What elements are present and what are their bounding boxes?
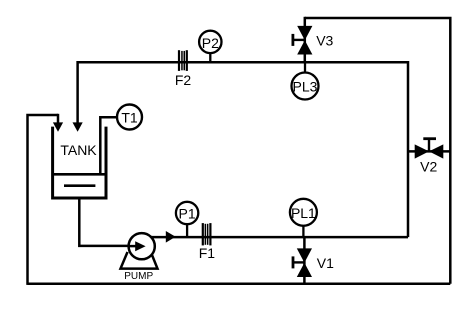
wire: top pipe with right-side vertical pipe	[305, 18, 451, 284]
wire: PL1 stem	[302, 212, 304, 237]
svg-text:P1: P1	[179, 206, 196, 222]
wire: V3 vertical pipe	[304, 17, 307, 62]
svg-text:TANK: TANK	[60, 142, 97, 158]
pump	[124, 233, 155, 282]
wire: upper middle pipe (F2 / P2 / PL3 / V3 junction line)	[78, 62, 408, 237]
svg-text:F1: F1	[199, 245, 216, 261]
arrow into tank from upper pipe	[73, 122, 83, 131]
wire: V2 horizontal pipe	[408, 150, 450, 153]
wire: lower discharge pipe (P1 / F1 / PL1 line)	[150, 236, 408, 239]
svg-text:PUMP: PUMP	[124, 271, 153, 282]
wire: P2 stem	[209, 42, 211, 62]
valve V2	[415, 139, 444, 175]
flow element F2	[175, 50, 192, 88]
tank	[52, 127, 107, 198]
arrow into tank from left loop	[53, 122, 63, 131]
svg-text:PL3: PL3	[293, 79, 318, 95]
wire: tank bottom outlet pipe to pump inlet	[79, 198, 136, 246]
wire: vertical pipe from upper pipe down into tank	[76, 61, 79, 124]
gauge PL1	[290, 199, 317, 226]
valve V1	[293, 248, 334, 277]
svg-text:PL1: PL1	[291, 205, 316, 221]
wire: left vertical pipe with corner toward tank	[28, 115, 59, 285]
sensor T1	[117, 105, 142, 130]
svg-text:T1: T1	[121, 110, 138, 126]
wire: T1 connector	[100, 117, 129, 175]
svg-text:F2: F2	[175, 72, 192, 88]
gauge P1	[176, 202, 198, 224]
wire: bottom return pipe	[28, 282, 451, 285]
valve V3	[293, 26, 334, 55]
svg-text:V1: V1	[317, 255, 334, 271]
arrow: pump discharge flow arrow	[166, 231, 176, 243]
wire: PL3 stem	[304, 62, 306, 86]
svg-text:P2: P2	[202, 35, 219, 51]
gauge P2	[199, 31, 221, 53]
gauge PL3	[292, 73, 319, 100]
pump base	[121, 252, 158, 269]
wire: V1 vertical pipe	[303, 237, 306, 284]
svg-text:V2: V2	[420, 159, 437, 175]
svg-text:V3: V3	[316, 32, 333, 48]
wire: left loop arrow shaft into tank	[57, 114, 60, 124]
flow element F1	[199, 223, 216, 261]
wire: P1 stem	[186, 213, 188, 237]
